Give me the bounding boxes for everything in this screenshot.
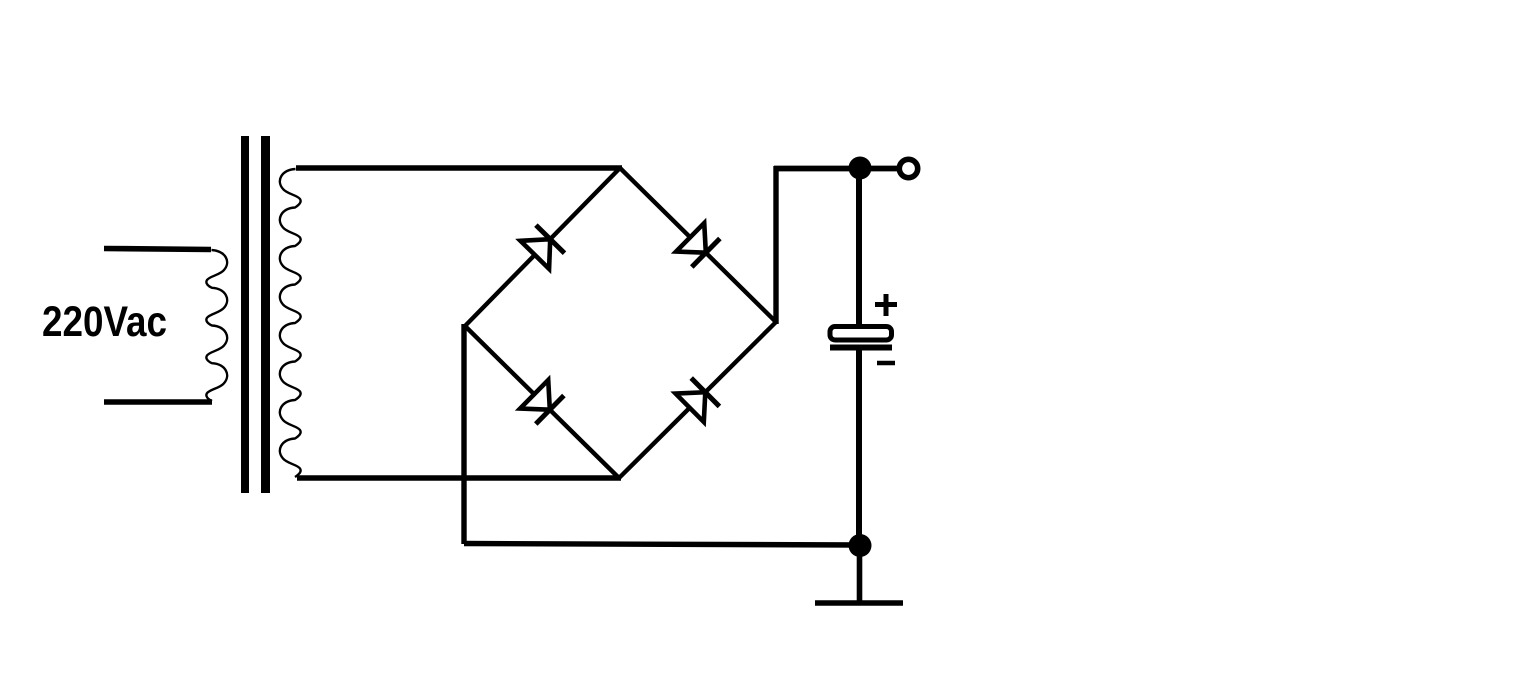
- wire to plus node: [774, 166, 860, 172]
- svg-text:220Vac: 220Vac: [42, 298, 167, 346]
- ground: [815, 600, 903, 605]
- node plus output junction: [849, 157, 872, 180]
- wire capacitor to minus node: [856, 349, 862, 546]
- bridge side top-left wire: [465, 168, 620, 326]
- transformer T1 core right bar: [261, 136, 270, 493]
- diode D1 top-left: [521, 225, 565, 269]
- transformer T1 primary winding: [206, 250, 227, 401]
- wire secondary bottom to bridge bottom vertex: [297, 475, 621, 480]
- bridge side top-right wire: [620, 168, 776, 322]
- wire bottom rail to minus node: [464, 544, 860, 546]
- wire bridge left vertex down: [461, 324, 466, 544]
- node minus junction: [849, 534, 872, 557]
- wire plus node down to capacitor: [856, 168, 862, 328]
- minus sign: [877, 361, 895, 366]
- diode D2 top-right: [676, 223, 720, 267]
- wire secondary top to bridge top vertex: [296, 165, 622, 170]
- diode D4 bottom-right: [676, 378, 720, 422]
- wire primary top lead: [104, 249, 211, 250]
- wire bridge right vertex up: [773, 166, 778, 324]
- transformer T1 core left bar: [241, 136, 249, 493]
- capacitor C1 positive plate: [830, 327, 892, 341]
- bridge side bottom-left wire: [465, 326, 619, 478]
- diode D3 bottom-left: [520, 380, 564, 424]
- wire node to output terminal: [860, 166, 898, 172]
- transformer T1 secondary winding: [280, 169, 301, 477]
- plus sign: [875, 294, 897, 316]
- bridge side bottom-right wire: [619, 322, 776, 478]
- wire primary bottom lead: [104, 399, 212, 405]
- output terminal: [899, 159, 917, 177]
- wire minus node to ground: [857, 545, 863, 602]
- capacitor C1 negative plate: [830, 345, 892, 351]
